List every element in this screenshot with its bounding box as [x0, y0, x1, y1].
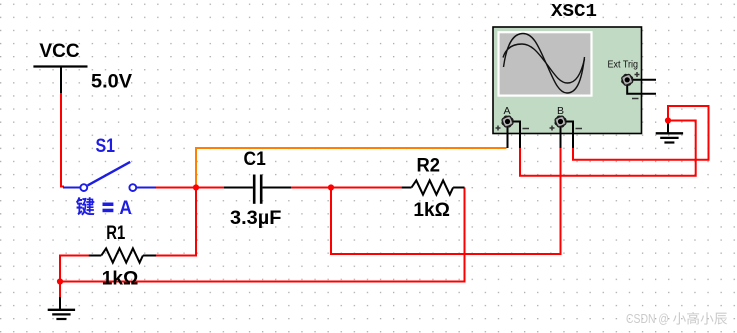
- pin A terminal: [501, 115, 513, 127]
- wire switch to C1 (red): [156, 187, 225, 189]
- wire ground rail to R2 right lead (red): [60, 188, 465, 282]
- wire node B to scope channel B (red): [331, 147, 561, 254]
- wire R1 to ground node (red): [60, 256, 89, 298]
- polarity marks Ext Trig: [632, 72, 640, 99]
- svg-text:3.3µF: 3.3µF: [230, 207, 281, 229]
- pin B terminal: [554, 115, 566, 127]
- wire node A down to R1 (red): [156, 188, 196, 256]
- watermark CSDN: [626, 311, 727, 326]
- capacitor C1: [224, 175, 291, 204]
- svg-text:Ext Trig: Ext Trig: [608, 59, 639, 70]
- resistor R1: [89, 248, 156, 262]
- resistor R2: [402, 180, 465, 194]
- wire C1 to node B to R2 (red): [291, 187, 402, 189]
- wire scope A minus stub (black): [512, 122, 521, 149]
- wire Ext Trig minus stub (black): [627, 83, 656, 94]
- wire scope B minus to ground (red): [573, 106, 709, 160]
- svg-text:C1: C1: [244, 148, 266, 170]
- svg-text:B: B: [557, 105, 564, 117]
- junction at left ground node: [57, 278, 63, 284]
- junction node B: [328, 184, 334, 190]
- ground (right): [656, 121, 683, 143]
- svg-text:XSC1: XSC1: [551, 1, 597, 22]
- wire VCC to switch S1 (red): [61, 93, 64, 187]
- svg-text:A: A: [504, 105, 511, 117]
- scope screen: [497, 31, 592, 97]
- polarity marks channel A: [496, 126, 530, 131]
- power symbol VCC bar: [33, 67, 87, 95]
- wire scope B minus stub (black): [565, 122, 574, 149]
- scope waveform trace 2: [503, 44, 585, 83]
- wire Ext Trig plus stub (black): [630, 79, 656, 81]
- svg-text:R1: R1: [106, 222, 125, 244]
- polarity marks channel B: [550, 126, 583, 131]
- svg-text:1kΩ: 1kΩ: [413, 199, 450, 221]
- svg-text:VCC: VCC: [40, 40, 80, 62]
- svg-text:CSDN @: CSDN @: [626, 311, 669, 326]
- svg-text:A: A: [119, 197, 131, 219]
- switch S1: [63, 162, 156, 191]
- svg-text:S1: S1: [96, 135, 116, 157]
- junction node A: [193, 184, 199, 190]
- label 键 = A: [76, 197, 132, 219]
- wire scope A minus to ground (red): [520, 121, 696, 176]
- wire node A to scope channel A (orange): [196, 148, 507, 188]
- wire scope A pin stub (black): [507, 123, 509, 148]
- scope waveform trace 1: [504, 34, 585, 94]
- wire scope B pin stub (black): [560, 123, 562, 148]
- junction at right ground node: [665, 117, 671, 123]
- svg-text:R2: R2: [417, 154, 441, 176]
- svg-text:5.0V: 5.0V: [91, 70, 132, 92]
- pin Ext Trig terminal: [621, 74, 633, 86]
- oscilloscope U1 XSC1 body: [493, 27, 642, 134]
- ground (left): [48, 297, 75, 319]
- svg-text:1kΩ: 1kΩ: [102, 267, 139, 289]
